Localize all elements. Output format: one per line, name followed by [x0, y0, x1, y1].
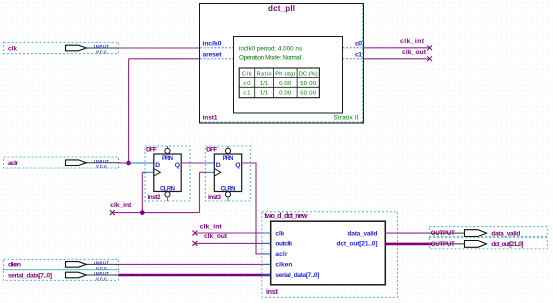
svg-text:serial_data[7..0]: serial_data[7..0] — [275, 272, 319, 279]
wire clk_int to DFF clocks — [113, 212, 200, 214]
input pin clk — [4, 42, 119, 54]
svg-text:clk_int: clk_int — [110, 202, 132, 209]
wire clken net — [119, 263, 271, 265]
svg-text:c1: c1 — [243, 91, 250, 97]
svg-text:c0: c0 — [243, 81, 250, 87]
svg-text:Q: Q — [175, 162, 180, 169]
svg-text:VCC: VCC — [96, 276, 107, 281]
svg-text:Q: Q — [235, 162, 240, 169]
port c0 — [343, 47, 364, 49]
svg-text:PRN: PRN — [223, 156, 234, 162]
wire clk net (pin to PLL inclk0) — [119, 47, 201, 49]
PLL dct_pll inst1 — [200, 4, 364, 124]
svg-text:serial_data[7..0]: serial_data[7..0] — [8, 272, 52, 279]
wire aclr to DFF1 D — [130, 162, 154, 164]
svg-text:clk: clk — [8, 46, 17, 53]
svg-text:clk: clk — [275, 230, 284, 237]
wire c0 to clk_int stub — [364, 47, 430, 49]
svg-text:aclr: aclr — [275, 251, 287, 258]
svg-text:OUTPUT: OUTPUT — [431, 231, 455, 237]
svg-text:clken: clken — [8, 262, 21, 269]
svg-text:dct_out[21..0]: dct_out[21..0] — [491, 241, 523, 248]
svg-text:PRN: PRN — [162, 156, 173, 162]
wire aclr pin to junction — [119, 162, 131, 164]
wire areset net horizontal — [129, 58, 200, 60]
svg-text:data_valid: data_valid — [348, 230, 378, 237]
svg-text:DFF: DFF — [206, 147, 217, 154]
svg-text:clk_out: clk_out — [204, 233, 228, 240]
svg-text:Clk: Clk — [242, 71, 252, 77]
D flip-flop DFF inst2 — [145, 146, 190, 201]
svg-text:dct_pll: dct_pll — [268, 4, 295, 13]
svg-text:aclr: aclr — [8, 160, 18, 167]
bus serial_data net — [119, 274, 271, 277]
PLL parameter box — [234, 37, 343, 114]
svg-text:inst3: inst3 — [208, 194, 221, 201]
svg-text:D: D — [216, 162, 221, 169]
port stub clken — [262, 263, 271, 265]
svg-text:dct_out[21..0]: dct_out[21..0] — [337, 241, 378, 248]
svg-text:Ratio: Ratio — [257, 71, 272, 77]
svg-text:clk_int: clk_int — [200, 224, 223, 231]
svg-text:inclk0 period: 4.000 ns: inclk0 period: 4.000 ns — [239, 45, 302, 52]
node clk_int (bottom left) — [110, 202, 132, 215]
svg-text:Stratix II: Stratix II — [334, 115, 359, 122]
node clk_out (mid) — [192, 233, 227, 246]
svg-text:OUTPUT: OUTPUT — [431, 242, 455, 248]
svg-text:Operation Mode: Normal: Operation Mode: Normal — [239, 54, 301, 61]
svg-text:inst1: inst1 — [203, 114, 218, 121]
node clk_int (top) — [400, 38, 432, 50]
svg-text:0.00: 0.00 — [279, 91, 291, 97]
input pin aclr — [4, 157, 119, 169]
svg-text:c0: c0 — [355, 40, 362, 47]
output pin dct_out[21..0] — [429, 238, 547, 249]
wire areset net vertical — [128, 59, 130, 163]
node clk_int (mid) — [192, 224, 222, 236]
svg-text:D: D — [155, 162, 160, 169]
wire Q2 to aclr port — [242, 163, 271, 254]
svg-text:outclk: outclk — [275, 241, 292, 248]
node clk_out (top) — [402, 49, 432, 61]
svg-text:inst: inst — [266, 289, 279, 296]
port inclk0 — [200, 47, 234, 49]
wire data_valid net — [385, 232, 464, 234]
wire Q1 to D2 — [181, 162, 214, 164]
D flip-flop DFF inst3 — [205, 146, 250, 201]
svg-text:1/1: 1/1 — [260, 81, 268, 87]
output pin data_valid — [429, 227, 547, 238]
svg-text:Ph (dg): Ph (dg) — [275, 71, 295, 77]
svg-text:DC (%): DC (%) — [299, 71, 318, 77]
svg-text:clk_out: clk_out — [402, 49, 427, 56]
wire DFF2 clock — [200, 172, 215, 212]
svg-text:c1: c1 — [355, 51, 362, 58]
port areset — [200, 58, 234, 60]
port stub aclr — [262, 253, 271, 255]
input pin serial_data[7..0] — [4, 270, 119, 282]
svg-text:50.00: 50.00 — [300, 81, 316, 87]
wire DFF1 clock — [142, 172, 154, 212]
svg-text:clk_int: clk_int — [400, 38, 425, 45]
svg-text:inst2: inst2 — [148, 194, 161, 201]
svg-text:VCC: VCC — [96, 49, 107, 54]
port stub outclk — [262, 242, 271, 244]
port stub serial_data — [262, 274, 271, 276]
svg-text:0.00: 0.00 — [279, 81, 291, 87]
svg-text:DFF: DFF — [146, 147, 157, 154]
wire c1 to clk_out stub — [364, 58, 430, 60]
svg-text:inclk0: inclk0 — [203, 40, 222, 47]
svg-text:VCC: VCC — [96, 164, 107, 169]
port stub clk — [262, 232, 271, 234]
svg-text:50.00: 50.00 — [300, 91, 316, 97]
input pin clken — [4, 259, 119, 271]
bus dct_out net — [385, 243, 464, 246]
junction aclr/areset/D — [126, 161, 131, 166]
wire clk_out to outclk port — [195, 242, 271, 244]
svg-text:1/1: 1/1 — [260, 91, 268, 97]
svg-text:clken: clken — [275, 262, 292, 269]
port c1 — [343, 58, 364, 60]
junction clk_int/DFF1 clock — [140, 210, 145, 215]
wire clk_int to clk port — [195, 232, 271, 234]
svg-text:areset: areset — [203, 51, 223, 58]
svg-text:data_valid: data_valid — [491, 230, 520, 237]
block two_d_dct_new inst — [262, 212, 398, 297]
PLL clock table — [239, 68, 319, 98]
svg-text:two_d_dct_new: two_d_dct_new — [264, 213, 308, 220]
